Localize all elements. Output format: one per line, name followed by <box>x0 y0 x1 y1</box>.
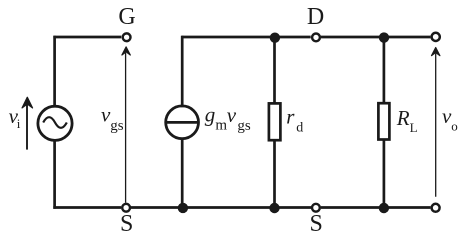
wire left vertical lower <box>53 139 56 209</box>
arrow vi <box>22 97 32 149</box>
svg-text:o: o <box>451 119 458 134</box>
svg-text:D: D <box>307 4 324 30</box>
wire bottom rail left <box>53 206 121 209</box>
junction rd bottom <box>269 203 279 213</box>
node output terminal bottom <box>432 204 440 212</box>
svg-text:i: i <box>17 116 21 131</box>
node S terminal right <box>312 204 320 212</box>
node output terminal top <box>432 33 440 41</box>
wire rd vertical lower <box>273 140 276 207</box>
voltage source V1 (vi) <box>38 106 72 140</box>
junction RL top <box>379 32 389 42</box>
svg-text:r: r <box>286 105 295 129</box>
svg-text:d: d <box>296 121 303 136</box>
svg-text:gs: gs <box>110 118 124 134</box>
wire left vertical upper <box>53 36 56 108</box>
node G terminal <box>123 33 131 41</box>
label gm vgs <box>205 103 251 134</box>
svg-text:R: R <box>396 106 410 130</box>
svg-text:G: G <box>118 4 135 30</box>
svg-text:g: g <box>205 103 216 127</box>
resistor RL <box>378 103 389 139</box>
wire top rail right section 1 <box>181 36 310 39</box>
label vi <box>9 104 21 131</box>
wire bottom rail right <box>321 206 431 209</box>
wire RL vertical lower <box>383 140 386 208</box>
wire RL vertical upper <box>383 37 386 103</box>
svg-text:S: S <box>310 211 323 237</box>
wire rd vertical upper <box>273 37 276 103</box>
node S terminal left <box>122 204 130 212</box>
junction dependent source bottom <box>178 203 188 213</box>
label vgs <box>101 103 124 134</box>
resistor rd <box>269 103 281 140</box>
junction rd top <box>270 33 280 43</box>
svg-text:m: m <box>215 118 227 134</box>
label vo <box>442 104 458 134</box>
arrow vo <box>432 48 440 197</box>
node D terminal <box>312 34 320 42</box>
wire bottom rail middle <box>131 206 311 209</box>
svg-text:gs: gs <box>237 118 251 134</box>
current source gm*vgs <box>166 106 199 139</box>
wire top rail left loop <box>53 36 121 39</box>
svg-text:v: v <box>227 103 237 127</box>
wire top rail right section 2 <box>321 36 431 39</box>
label RL <box>396 106 418 135</box>
svg-text:L: L <box>410 120 418 135</box>
label rd <box>286 105 303 136</box>
svg-text:S: S <box>120 211 133 237</box>
arrow vgs <box>122 47 130 203</box>
wire dependent source vertical lower <box>181 138 184 208</box>
wire dependent source vertical upper <box>181 36 184 108</box>
junction RL bottom <box>379 203 389 213</box>
